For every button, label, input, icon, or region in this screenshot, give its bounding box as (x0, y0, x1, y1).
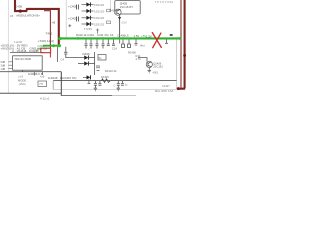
svg-text:R410 1k C410: R410 1k C410 (76, 33, 94, 37)
wire B+ main maroon path (15, 0, 59, 46)
transistor Q405 (115, 9, 121, 15)
svg-text:T 0.5V: T 0.5V (84, 27, 92, 31)
node green junction D (102, 37, 105, 40)
node green junction lower A (52, 44, 55, 47)
diode D406 (84, 56, 88, 60)
svg-text:+C408: +C408 (68, 4, 77, 8)
svg-text:C1406LS: C1406LS (117, 34, 129, 38)
svg-text:+T401 12(4): +T401 12(4) (38, 39, 54, 43)
svg-text:4001: 4001 (153, 71, 159, 75)
wire cluster vertical (94, 52, 96, 75)
component stub below bus x166 (165, 40, 168, 44)
component stub below bus x123 (122, 40, 125, 48)
capacitor C412 leg x65.8 (64, 47, 67, 58)
capacitor stub below bus x97 (96, 40, 99, 49)
node green junction right end (179, 37, 182, 40)
node green junction A (58, 37, 61, 40)
wire right maroon thick vertical (178, 0, 185, 89)
diode D402 (82, 9, 94, 13)
svg-text:C14: C14 (112, 46, 117, 50)
svg-text:+B: +B (52, 21, 56, 25)
wire red stub (49, 53, 51, 58)
pin tick 2 (8, 64, 12, 66)
svg-text:1SS133: 1SS133 (94, 9, 104, 13)
wire top of lower-left IC (10, 52, 44, 54)
ERC marker red X (152, 33, 161, 48)
capacitor stub below bus x103 (102, 40, 105, 49)
node green junction C (90, 37, 93, 40)
svg-text:2SC181: 2SC181 (153, 65, 163, 69)
svg-text:1SS133: 1SS133 (94, 22, 104, 26)
svg-text:+C409: +C409 (68, 16, 77, 20)
junction dot bottom right (177, 87, 180, 90)
svg-text:TDA SO 8GB: TDA SO 8GB (14, 57, 31, 61)
wire maroon tap stub (44, 11, 50, 49)
IC box lower left (13, 56, 43, 70)
box bottom faint line (53, 89, 176, 91)
diode D410 tail (88, 80, 91, 84)
node green junction lower B (58, 44, 61, 47)
svg-text:1SS133: 1SS133 (94, 3, 104, 7)
svg-text:A-12 o1: A-12 o1 (40, 96, 50, 100)
wire to diode pair (66, 57, 84, 59)
border bottom left (0, 92, 61, 94)
component box cluster (98, 55, 106, 61)
svg-text:C · 1N4448 · 1N4448: C · 1N4448 · 1N4448 (12, 49, 39, 53)
svg-text:C405: C405 (15, 5, 23, 9)
svg-text:5dB: 5dB (1, 60, 6, 64)
svg-text:C1407: C1407 (162, 84, 170, 88)
node green junction F (122, 37, 125, 40)
transistor Q1406 (146, 61, 152, 67)
svg-text:3dB: 3dB (1, 63, 6, 67)
svg-text:(4v): (4v) (140, 44, 145, 48)
label mark above right (170, 34, 173, 36)
pin tick 1 (8, 61, 12, 63)
component stub below bus x129 (128, 40, 131, 48)
arrow on emitter wire (118, 17, 121, 20)
capacitor leg x122 (121, 81, 124, 86)
svg-text:T401: T401 (46, 32, 53, 36)
svg-text:2SC1815Y: 2SC1815Y (120, 5, 134, 9)
diode D403 (82, 16, 94, 20)
svg-text:1dB: 1dB (1, 67, 6, 71)
node green junction E (112, 37, 115, 40)
svg-text:(2SA): (2SA) (19, 82, 26, 86)
IC box Q405 (115, 1, 140, 14)
pin symbol above bus (96, 29, 99, 34)
svg-text:R1405: R1405 (101, 75, 109, 79)
capacitor leg below lower green x57 (57, 47, 59, 62)
node green junction B (77, 37, 80, 40)
svg-text:MAL 40PF 0.5A: MAL 40PF 0.5A (155, 89, 173, 93)
small box bottom left (38, 81, 47, 87)
svg-text:T P 1.5 V 0.5A: T P 1.5 V 0.5A (155, 0, 173, 4)
svg-text:1SS133: 1SS133 (94, 16, 104, 20)
plus mark (68, 24, 71, 27)
divider vertical (60, 72, 62, 96)
wire green upper main bus (59, 37, 181, 39)
resistor FR401 red box (41, 48, 51, 53)
capacitor stub below bus x86 (85, 40, 88, 49)
svg-text:MODULATION B+: MODULATION B+ (17, 13, 41, 17)
svg-text:R1406: R1406 (128, 50, 136, 54)
svg-text:B52: B52 (72, 76, 77, 80)
wire green lower segment (43, 45, 60, 47)
grid line right box edge (176, 40, 178, 90)
svg-text:1N4448 · 2SC1815: 1N4448 · 2SC1815 (48, 76, 72, 80)
svg-text:1o: 1o (125, 83, 128, 87)
resistor marks right of D403 (107, 21, 111, 24)
pin tick 3 (8, 68, 12, 70)
capacitor C409 symbol (77, 17, 79, 22)
wire corner left (52, 81, 54, 90)
svg-text:1.5V: 1.5V (146, 35, 152, 39)
stub from IC box bottom (22, 70, 24, 72)
svg-text:1B: 1B (10, 14, 13, 18)
wire bottom-left horizontal (0, 71, 61, 73)
diode D404 (82, 22, 94, 26)
capacitor leg x95 (94, 81, 97, 91)
diode D410 bottom (87, 75, 91, 79)
junction dot right vertical (183, 54, 186, 57)
resistor R1405 (102, 79, 111, 83)
wire bottom main horizontal (53, 80, 176, 82)
junction dot on B+ wire (19, 10, 22, 13)
svg-text:o1 B: o1 B (18, 76, 23, 79)
svg-text:C4: C4 (61, 58, 65, 62)
capacitor stub below bus x91 (90, 40, 93, 49)
grid line left (7, 0, 9, 93)
border bottom right (61, 95, 112, 97)
diode D401 (82, 2, 94, 6)
svg-text:R1410 2k: R1410 2k (105, 69, 117, 73)
wire to Q1406 (138, 58, 147, 62)
resistor marks right of D401 (107, 9, 111, 12)
component stub below bus x120 (119, 40, 121, 44)
svg-text:5o: 5o (99, 56, 102, 60)
svg-text:C: C (114, 83, 116, 87)
stub x42 (42, 72, 44, 75)
capacitor stub below bus x108 (107, 40, 110, 46)
wire emitter down (119, 15, 121, 37)
capacitor leg x100 (98, 81, 101, 86)
svg-text:D406: D406 (83, 52, 91, 56)
capacitor stub below bus x113 (112, 40, 115, 46)
svg-text:1.5V: 1.5V (134, 34, 140, 38)
stub x34 (33, 72, 35, 76)
ground below Q1406 (148, 68, 152, 73)
node green junction G (128, 37, 130, 39)
svg-text:7.5: 7.5 (39, 82, 43, 86)
capacitor leg x118 (117, 81, 120, 91)
svg-text:4oB: 4oB (40, 76, 45, 79)
component stub below bus x136 (135, 40, 138, 46)
diode D407 (84, 61, 88, 65)
grid line upper right (110, 0, 112, 12)
svg-text:R40: R40 (110, 9, 115, 13)
svg-text:0.5V: 0.5V (122, 21, 128, 25)
capacitor marks cluster (96, 66, 100, 71)
wire right maroon thin vertical (180, 0, 182, 89)
svg-text:C411 47p C2: C411 47p C2 (97, 33, 114, 37)
capacitor C408 symbol (77, 5, 79, 10)
grid line mid (65, 0, 67, 38)
